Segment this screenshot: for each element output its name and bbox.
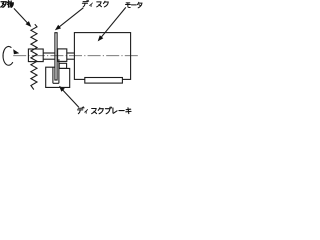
caliper slot left wall [52,67,54,83]
label: blade 刃物 [1,1,13,8]
brake pad box [59,63,66,68]
label: disc brake ディスクブレーキ [77,107,131,114]
motor base block [85,78,123,84]
leader arrow to disc [55,8,83,31]
shaft top line (hub to disc) [43,52,55,54]
disc (vertical plate) [55,33,57,80]
leader arrow to blade [14,8,31,27]
rotation arrow (ellipse arc) on shaft end [3,46,13,65]
label: disc ディスク [82,0,108,7]
blade zigzag [31,24,37,89]
coupling box on shaft (right of disc) [58,49,67,62]
shaft bottom line (coupling to motor) [67,58,75,60]
leader arrow to disc brake [59,86,79,107]
leader arrow to motor [98,7,126,41]
motor body [74,33,130,80]
caliper slot right wall [58,59,60,83]
shaft bottom line (hub to disc) [43,58,55,60]
brake caliper outline [46,67,70,87]
shaft top line (coupling to motor) [67,52,75,54]
label: motor モータ [126,2,142,8]
rotation arrowhead [13,49,19,54]
caliper slot bottom [53,82,59,84]
shaft centerline (dash-dot) [13,55,138,57]
hub box on shaft (blade holder) [28,49,43,62]
